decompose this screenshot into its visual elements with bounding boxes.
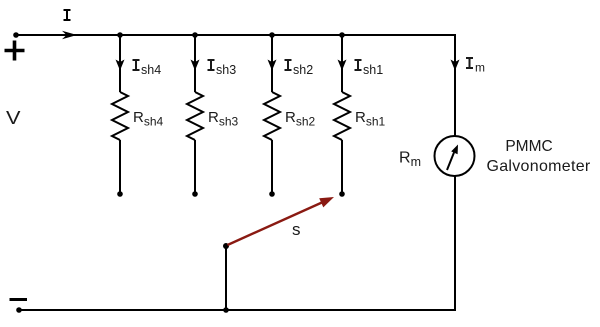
bottom wire xyxy=(19,309,456,311)
resistor Rsh2 xyxy=(264,92,280,140)
wire branch 3 lower xyxy=(271,140,273,194)
top wire xyxy=(16,34,455,36)
current arrow Im xyxy=(451,60,460,71)
branch 2 junction node xyxy=(192,32,198,38)
current arrow Ish2 xyxy=(268,60,277,71)
resistor Rsh1 xyxy=(334,92,350,140)
minus terminal symbol xyxy=(10,298,28,301)
label Ish2 xyxy=(285,60,314,77)
node branch 3 bottom terminal xyxy=(269,191,275,197)
svg-text:Rsh2: Rsh2 xyxy=(285,109,316,129)
wire branch 1 upper xyxy=(119,35,121,92)
wire switch riser xyxy=(225,246,227,310)
node branch 2 bottom terminal xyxy=(192,191,198,197)
label I xyxy=(64,10,71,20)
wire branch 2 upper xyxy=(194,35,196,92)
wire branch 4 upper xyxy=(341,35,343,92)
svg-text:Rsh4: Rsh4 xyxy=(133,109,164,129)
svg-text:Rsh1: Rsh1 xyxy=(355,109,386,129)
wire right vertical upper xyxy=(454,34,456,136)
label Ish1 xyxy=(355,60,384,77)
svg-text:V: V xyxy=(6,108,21,128)
wire branch 4 lower xyxy=(341,140,343,194)
node branch 1 bottom terminal xyxy=(117,191,123,197)
svg-text:Rsh3: Rsh3 xyxy=(208,109,239,129)
wire branch 3 upper xyxy=(271,35,273,92)
plus terminal symbol xyxy=(5,41,25,61)
current arrow Ish3 xyxy=(191,60,200,71)
wire branch 1 lower xyxy=(119,140,121,194)
resistor Rsh4 xyxy=(112,92,128,140)
branch 3 junction node xyxy=(269,32,275,38)
node switch pivot xyxy=(223,243,229,249)
svg-text:sh1: sh1 xyxy=(363,63,383,77)
node switch junction on bottom wire xyxy=(223,307,229,313)
galvanometer meter U1 xyxy=(435,136,475,176)
label Im xyxy=(466,58,485,75)
node bottom left terminal dot xyxy=(16,307,22,313)
wire branch 2 lower xyxy=(194,140,196,194)
svg-text:sh4: sh4 xyxy=(141,63,161,77)
current arrow Ish1 xyxy=(338,60,347,71)
svg-text:s: s xyxy=(292,220,301,239)
node left terminal dot xyxy=(13,32,19,38)
switch S arm xyxy=(228,197,335,245)
resistor Rsh3 xyxy=(187,92,203,140)
galvanometer needle xyxy=(447,153,454,171)
label Ish3 xyxy=(208,60,237,77)
svg-text:PMMC: PMMC xyxy=(505,138,552,155)
branch 4 junction node xyxy=(339,32,345,38)
svg-text:m: m xyxy=(475,61,485,75)
node branch 4 bottom terminal xyxy=(339,191,345,197)
svg-text:Rm: Rm xyxy=(399,150,421,170)
branch 1 junction node xyxy=(117,32,123,38)
svg-text:sh2: sh2 xyxy=(293,63,313,77)
svg-text:Galvonometer: Galvonometer xyxy=(486,158,590,175)
wire right vertical lower xyxy=(454,176,456,311)
label Ish4 xyxy=(133,60,162,77)
current arrow I on top wire xyxy=(62,31,77,39)
svg-text:sh3: sh3 xyxy=(216,63,236,77)
current arrow Ish4 xyxy=(116,60,125,71)
